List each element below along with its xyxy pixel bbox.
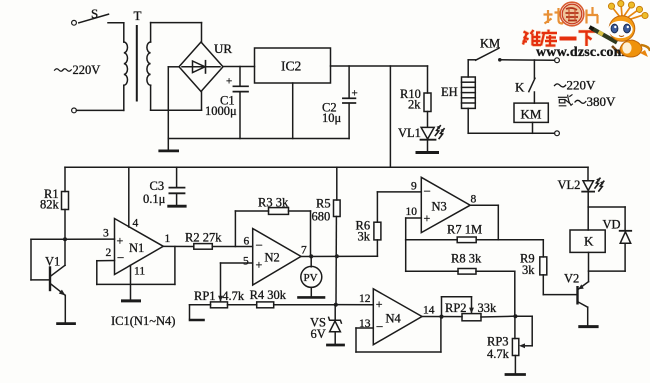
regulator IC2 <box>255 48 331 83</box>
transformer T <box>124 8 151 101</box>
contact KM <box>468 37 501 78</box>
transistor V1 <box>31 239 66 322</box>
wire pin8 output <box>470 205 498 240</box>
potentiometer RP2 <box>442 297 516 321</box>
node R5/output <box>335 254 339 258</box>
ground bus <box>160 139 178 151</box>
logo weikuyixia glow <box>523 30 595 47</box>
svg-text:3k: 3k <box>358 230 371 244</box>
svg-text:−: − <box>117 250 124 265</box>
wire bottom row <box>468 108 554 133</box>
ground RP1 <box>190 319 204 322</box>
switch K <box>515 60 535 103</box>
wire N4 output <box>422 316 462 318</box>
svg-text:V2: V2 <box>564 272 579 286</box>
meter PV <box>301 256 322 296</box>
wire top to terminal <box>500 59 555 61</box>
capacitor C1 <box>205 67 248 139</box>
svg-text:220V: 220V <box>73 63 101 77</box>
svg-text:R5: R5 <box>316 197 331 211</box>
svg-text:220V: 220V <box>567 78 597 93</box>
svg-text:K: K <box>515 80 525 95</box>
node A junction <box>63 237 67 241</box>
svg-text:3: 3 <box>103 228 109 240</box>
svg-text:www.dzsc.com: www.dzsc.com <box>536 45 626 60</box>
svg-text:4: 4 <box>133 218 139 230</box>
svg-text:10: 10 <box>406 206 418 218</box>
svg-text:−: − <box>424 184 431 199</box>
svg-text:N3: N3 <box>432 200 447 214</box>
wire secondary bottom <box>151 85 202 110</box>
svg-text:33k: 33k <box>478 301 498 315</box>
resistor R5 <box>312 167 341 305</box>
svg-text:IC2: IC2 <box>281 59 301 74</box>
capacitor C2 <box>322 66 358 139</box>
op-amp N4 <box>359 289 435 345</box>
glyph yi <box>560 37 577 41</box>
svg-text:VL1: VL1 <box>398 126 421 140</box>
svg-text:RP2: RP2 <box>445 301 467 315</box>
wire IC2 ground pin <box>292 83 294 139</box>
glyph zhao <box>544 8 565 24</box>
svg-text:PV: PV <box>304 272 318 284</box>
wire primary top <box>123 23 125 42</box>
node PV junction <box>309 254 313 258</box>
resistor R6 <box>356 192 381 256</box>
svg-text:N4: N4 <box>386 312 402 326</box>
ground V2 <box>580 325 597 328</box>
wire N4 feedback pin13 <box>356 317 441 352</box>
svg-text:2k: 2k <box>408 98 421 112</box>
svg-text:11: 11 <box>134 266 145 278</box>
svg-text:7: 7 <box>301 245 307 257</box>
wire rail drop from IC2 output <box>389 66 391 167</box>
svg-text:1000μ: 1000μ <box>205 104 237 118</box>
svg-text:T: T <box>134 8 142 23</box>
node VS junction <box>334 303 338 307</box>
LED VL2 <box>558 167 605 192</box>
svg-text:R8 3k: R8 3k <box>451 252 482 266</box>
wire N1 feedback pin2 <box>97 247 175 285</box>
svg-text:VD: VD <box>603 218 621 232</box>
svg-text:+: + <box>352 88 358 100</box>
svg-text:EH: EH <box>441 85 458 99</box>
LED VL1 <box>398 125 445 140</box>
svg-text:V1: V1 <box>45 255 60 269</box>
svg-text:3k: 3k <box>522 263 535 277</box>
ground RP3 <box>506 373 525 376</box>
op-amp N3 <box>406 177 477 232</box>
wire pin9 <box>377 191 421 193</box>
resistor R4 <box>250 288 337 308</box>
wire pin5 to RP1 wiper <box>221 262 253 264</box>
glyph ku <box>541 30 557 47</box>
svg-text:9: 9 <box>411 181 417 193</box>
svg-text:R3 3k: R3 3k <box>258 196 289 210</box>
resistor R9 <box>520 240 547 295</box>
svg-text:−: − <box>376 319 383 334</box>
svg-text:K: K <box>584 234 594 249</box>
wire N2 output node <box>301 255 377 257</box>
svg-text:N1: N1 <box>129 241 144 255</box>
svg-text:82k: 82k <box>40 198 60 212</box>
wire DC bus <box>168 138 349 140</box>
svg-text:8: 8 <box>471 194 477 206</box>
resistor R1 <box>40 167 69 239</box>
glyph xia <box>579 32 596 47</box>
badge circle <box>560 2 584 26</box>
svg-text:+: + <box>376 297 383 311</box>
resistor R7 <box>406 223 544 243</box>
node terminal top-right <box>555 58 560 63</box>
svg-text:+: + <box>256 258 263 272</box>
diode VD <box>589 207 632 271</box>
node terminal bottom-left <box>72 108 77 113</box>
wire bridge plus to IC2 <box>223 66 255 68</box>
svg-text:4.7k: 4.7k <box>222 289 245 303</box>
wire secondary top <box>151 23 202 42</box>
label ~220V <box>55 63 101 77</box>
glyph wei <box>523 30 542 46</box>
svg-text:N2: N2 <box>265 251 280 265</box>
svg-text:S: S <box>91 6 98 21</box>
svg-text:680: 680 <box>312 210 331 224</box>
svg-text:IC1(N1~N4): IC1(N1~N4) <box>111 314 175 328</box>
svg-text:2: 2 <box>106 247 112 259</box>
node terminal bottom-right <box>555 131 560 136</box>
pencil <box>590 27 621 54</box>
wire pin11 and ground <box>123 265 146 301</box>
ground V1 <box>58 322 75 325</box>
resistor R2 <box>163 231 252 250</box>
svg-text:+: + <box>117 234 124 248</box>
resistor R8 <box>406 240 515 316</box>
svg-text:+: + <box>226 76 232 88</box>
potentiometer RP3 <box>487 316 532 373</box>
relay K <box>570 230 605 252</box>
resistor R3 feedback <box>235 196 310 257</box>
watermark dzsc logo <box>523 1 650 61</box>
svg-text:380V: 380V <box>587 94 617 109</box>
svg-text:6: 6 <box>244 236 250 248</box>
node RP2/RP3 <box>513 314 517 318</box>
svg-text:R7 1M: R7 1M <box>447 223 482 237</box>
transistor V2 <box>564 252 589 324</box>
svg-text:KM: KM <box>521 107 542 122</box>
svg-text:UR: UR <box>214 41 232 56</box>
coil KM <box>514 103 548 122</box>
svg-text:VL2: VL2 <box>558 178 581 192</box>
op-amp N1 <box>103 219 171 275</box>
svg-text:0.1μ: 0.1μ <box>143 192 166 206</box>
ground C3 <box>169 205 186 208</box>
bridge rectifier UR <box>179 41 232 92</box>
node N4 out <box>439 315 443 319</box>
ground PV <box>299 296 325 299</box>
potentiometer RP1 <box>190 263 257 319</box>
wire pin4 <box>129 167 139 229</box>
capacitor C3 <box>143 167 185 206</box>
svg-text:1: 1 <box>165 233 171 245</box>
switch S <box>79 6 124 23</box>
wire pin10 <box>406 218 422 240</box>
svg-text:14: 14 <box>423 305 435 317</box>
op-amp N2 <box>243 229 307 286</box>
wire IC2 output <box>331 65 428 67</box>
wire VL2 to K <box>588 192 625 230</box>
wire node to pin3 <box>65 238 115 240</box>
zener VS <box>310 305 341 344</box>
heater EH <box>441 77 475 108</box>
svg-text:KM: KM <box>480 37 500 51</box>
label ~220V / 380V <box>555 78 617 110</box>
svg-text:10μ: 10μ <box>322 111 342 125</box>
svg-text:6V: 6V <box>311 327 326 341</box>
logo weikuyixia <box>523 30 596 47</box>
svg-text:−: − <box>256 238 263 253</box>
wire to pin12 <box>337 293 373 305</box>
resistor R10 <box>400 66 431 127</box>
svg-text:+: + <box>424 211 431 225</box>
svg-text:4.7k: 4.7k <box>487 347 510 361</box>
glyph pian <box>587 7 599 24</box>
wire base V2 <box>543 294 576 296</box>
mascot <box>608 1 650 58</box>
node terminal top-left <box>72 20 77 25</box>
wire primary bottom <box>76 85 123 110</box>
wire bridge minus to bus <box>168 67 179 139</box>
svg-text:R4 30k: R4 30k <box>250 288 287 302</box>
wire main rail <box>65 166 588 168</box>
svg-text:RP1: RP1 <box>194 289 216 303</box>
ground VS <box>328 344 344 347</box>
svg-text:5: 5 <box>243 256 249 268</box>
svg-text:R2 27k: R2 27k <box>185 231 222 245</box>
ground VL1 <box>417 140 438 153</box>
svg-text:12: 12 <box>359 293 371 305</box>
